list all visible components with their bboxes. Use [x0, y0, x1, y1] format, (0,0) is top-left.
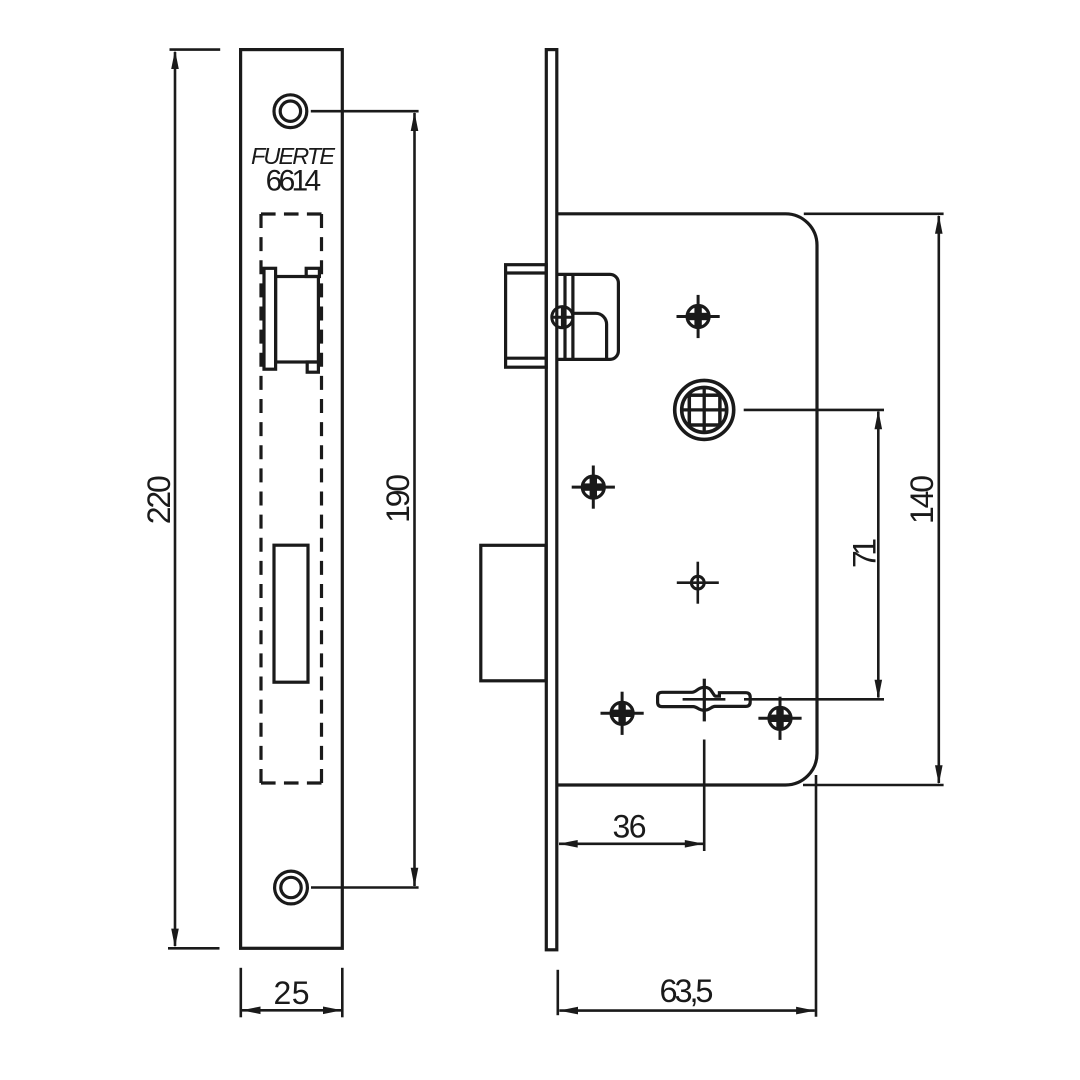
- lock case hidden outline (dashed): [261, 214, 322, 783]
- dim 220: [168, 50, 220, 949]
- dim 190: [311, 111, 419, 887]
- dim 36: [559, 740, 704, 852]
- front top screw hole: [274, 95, 307, 128]
- latch tail: [573, 313, 607, 359]
- svg-text:25: 25: [274, 975, 310, 1011]
- dim 140: [803, 214, 944, 785]
- spindle follower: [675, 380, 734, 439]
- dim 71: [683, 410, 884, 699]
- svg-text:63,5: 63,5: [660, 973, 714, 1009]
- svg-text:190: 190: [380, 474, 416, 523]
- key bit slot: [658, 679, 751, 722]
- svg-text:71: 71: [847, 538, 883, 568]
- deadbolt side: [481, 545, 546, 681]
- side lock case outline: [557, 214, 817, 785]
- latch bolt side: protruding head: [506, 265, 547, 368]
- latch bolt front: body: [276, 277, 319, 363]
- deadbolt slot front: [274, 545, 308, 682]
- bottom-right screw boss: [758, 697, 801, 740]
- dim 63,5: [558, 775, 816, 1017]
- svg-text:36: 36: [613, 809, 647, 845]
- latch bolt side: inner housing: [557, 274, 619, 359]
- latch bolt front: top tab: [306, 268, 319, 276]
- front faceplate plate: [241, 50, 343, 949]
- svg-text:6614: 6614: [266, 165, 322, 198]
- screw boss mid-left: [572, 466, 615, 509]
- side faceplate strip: [546, 50, 557, 950]
- front bottom screw hole: [275, 871, 308, 904]
- svg-text:140: 140: [904, 475, 940, 524]
- phillips screw head: [551, 306, 574, 329]
- dim 25: [241, 968, 342, 1018]
- latch bolt front: flange bar: [264, 268, 276, 369]
- small pin hole: [677, 562, 719, 604]
- bottom-left screw boss: [601, 692, 644, 735]
- svg-text:220: 220: [141, 475, 177, 524]
- latch bolt front: bottom tab: [307, 362, 318, 372]
- screw boss top: [677, 295, 720, 338]
